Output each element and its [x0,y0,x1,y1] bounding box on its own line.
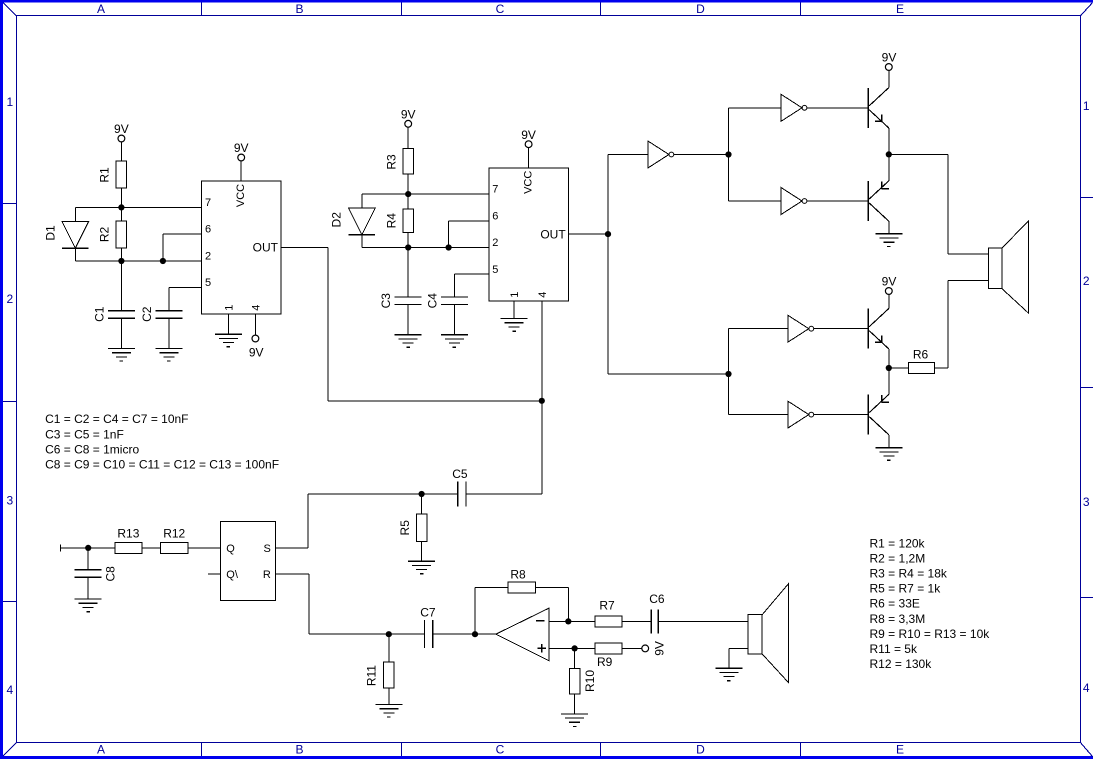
resistor R12 [160,527,188,554]
wire to inverter G2 [729,107,782,109]
svg-text:9V: 9V [401,107,416,121]
wire node to R6 [889,367,909,369]
capacitor C8 [75,548,118,599]
svg-text:C: C [496,2,505,16]
op-amp U4 [496,608,549,661]
transistor Q3 [868,309,888,349]
svg-text:D: D [696,2,705,16]
capacitor C3 [379,248,422,335]
svg-text:C1: C1 [92,306,106,322]
svg-text:B: B [295,2,303,16]
svg-text:R4: R4 [384,213,398,229]
power 9V VCC pin IC2 [521,128,536,168]
inverter G3 [781,188,807,215]
wire pin6 branch IC2 [449,221,489,248]
svg-text:C4: C4 [425,293,439,309]
transistor Q1 [868,88,888,128]
capacitor C5 [452,467,468,507]
svg-text:5: 5 [492,264,498,276]
svg-text:7: 7 [205,197,211,209]
ground under R10 [561,714,588,727]
inverter G4 [788,315,814,342]
wire trunk to bottom pair [608,373,729,375]
wire Q\ stub [208,573,221,575]
wire to inverter G5 [729,414,788,416]
resistor R10 [569,648,597,714]
wire to inverter G3 [729,200,782,202]
node pin2 net IC1 [75,258,201,264]
wire C6 to speaker [658,620,748,622]
svg-text:9V: 9V [114,122,129,136]
svg-text:1: 1 [509,292,521,298]
svg-text:C5: C5 [452,467,468,481]
wire pin6 branch IC1 [163,234,202,261]
svg-text:R6: R6 [913,347,929,361]
wire to inverter G4 [729,328,788,330]
power 9V supply above R3 [401,107,416,148]
wire top pair vertical [728,108,730,201]
wire minus input [549,620,568,622]
svg-text:6: 6 [205,224,211,236]
svg-text:R13: R13 [117,527,139,541]
svg-text:C8 = C9 = C10 = C11 = C12 = C1: C8 = C9 = C10 = C11 = C12 = C13 = 100nF [45,458,279,472]
wire Q3 collector to 9V [888,294,890,308]
svg-text:R: R [263,569,271,581]
svg-text:R10: R10 [583,670,597,692]
power 9V collector Q1 [882,51,897,71]
power 9V VCC pin IC1 [234,141,249,181]
wire vertical trunk [607,155,609,375]
ground under R5 [408,561,435,574]
svg-text:Q: Q [226,543,235,555]
wire trunk to inverter G1 [608,154,648,156]
svg-text:9V: 9V [882,275,897,289]
svg-text:D: D [696,742,705,756]
wire G1 output [674,154,729,156]
wire R6 to speaker LS1 [934,280,988,368]
ground under C2 [155,349,182,362]
resistor R8 feedback [475,567,568,634]
wire R12 to Q [188,547,221,549]
svg-text:1: 1 [1083,99,1090,113]
resistor R3 [384,148,413,174]
svg-text:C: C [496,742,505,756]
transistor Q4 [868,394,889,434]
wire OUT1 net [281,247,542,400]
svg-text:2: 2 [492,237,498,249]
resistor R7 [568,598,622,627]
node pin7 net IC2 [362,191,489,197]
svg-text:C8: C8 [103,566,117,582]
diode D2 [330,194,376,247]
node OUT2 junction [605,231,611,237]
svg-text:C6: C6 [649,592,665,606]
wire R7 to C6 [622,620,651,622]
svg-text:9V: 9V [882,51,897,65]
svg-text:R11: R11 [364,665,378,686]
svg-text:1: 1 [6,95,13,109]
ground under C3 [395,335,422,348]
svg-text:R11 = 5k: R11 = 5k [870,642,918,656]
svg-text:R6 = 33E: R6 = 33E [870,597,920,611]
wire top node to speaker LS1 [889,154,989,254]
svg-text:C2: C2 [140,306,154,322]
svg-text:9V: 9V [234,141,249,155]
power 9V supply above R1 [114,122,129,161]
resistor R11 [364,634,394,704]
node plus input [572,645,578,651]
resistor R4 [384,194,413,247]
resistor R2 [98,207,127,261]
wire OUT2 net [569,233,608,235]
resistor R13 [115,527,142,554]
svg-text:2: 2 [6,292,13,306]
node push-pull top [886,151,892,157]
inverter G2 [781,94,807,121]
svg-text:9V: 9V [521,128,536,142]
wire bottom pair vertical [728,329,730,415]
svg-text:3: 3 [1083,495,1090,509]
transistor Q2 [868,181,889,221]
capacitor C2 [140,306,183,348]
ground under C4 [441,335,468,348]
svg-text:C7: C7 [420,606,436,620]
resistor R9 [575,643,642,669]
wire Q2 lower to ground [888,221,890,234]
node R5 tap [419,491,425,497]
svg-text:1: 1 [223,305,235,311]
ground under C1 [108,349,135,362]
svg-text:A: A [97,2,105,16]
node OUT1/pin4 junction [539,398,545,404]
svg-text:4: 4 [537,292,549,298]
svg-text:9V: 9V [653,641,667,656]
svg-text:4: 4 [6,683,13,697]
svg-text:S: S [263,543,270,555]
svg-text:E: E [896,742,904,756]
svg-text:R8 = 3,3M: R8 = 3,3M [870,612,926,626]
note capacitor values [45,412,279,471]
node bottom pair split [725,371,731,377]
svg-text:VCC: VCC [235,184,247,207]
svg-text:4: 4 [250,305,262,311]
svg-text:E: E [896,2,904,16]
ground under Q2 [875,234,902,247]
node R11 tap [386,631,392,637]
svg-text:R3: R3 [384,154,398,170]
node minus input [565,618,571,624]
wire Q4 upper to node [888,368,890,394]
speaker LS2 [748,584,789,683]
wire Q4 lower to ground [888,435,890,448]
svg-text:2: 2 [1083,274,1090,288]
svg-text:R5 = R7 = 1k: R5 = R7 = 1k [870,582,942,596]
wire pin4 IC2 down to junction [541,301,543,401]
wire C5 right segment [466,493,542,495]
op-amp U1 555 timer IC1 box [202,181,282,314]
svg-text:B: B [295,742,303,756]
svg-text:R12 = 130k: R12 = 130k [870,657,933,671]
power 9V collector Q3 [882,275,897,295]
ground under speaker LS2 [715,668,742,681]
wire R pin to opamp row [276,574,389,634]
svg-text:7: 7 [492,184,498,196]
node R8 feedback tap [472,631,478,637]
inverter G1 [648,141,674,168]
svg-text:D2: D2 [330,212,344,228]
node top pair split [725,151,731,157]
ground under Q4 [875,448,902,461]
svg-text:R2: R2 [98,227,112,243]
wire R3 to node [407,174,409,194]
wire C5 left segment to S [276,494,458,548]
svg-text:OUT: OUT [253,241,279,255]
wire pin5 branch IC2 [454,274,488,297]
power 9V pin4 IC1 [249,314,264,359]
svg-text:R2 = 1,2M: R2 = 1,2M [870,551,926,565]
svg-text:D1: D1 [44,225,58,241]
wire Q2 upper to node [888,154,890,180]
capacitor C6 [649,592,665,633]
ground pin1 IC1 [215,314,242,347]
svg-text:R7: R7 [599,598,615,612]
node push-pull bottom [886,365,892,371]
wire Q1 collector to 9V [888,70,890,87]
ground under C8 [75,599,102,612]
svg-text:R3 = R4 = 18k: R3 = R4 = 18k [870,567,948,581]
resistor R6 [908,347,934,373]
svg-text:R1 = 120k: R1 = 120k [870,536,926,550]
wire G5 to Q4 base [814,414,868,416]
wire G4 to Q3 base [814,328,868,330]
svg-text:R1: R1 [98,167,112,183]
wire R1 to node [120,188,122,207]
svg-text:2: 2 [205,251,211,263]
wire pin5 branch IC1 [169,288,202,311]
svg-text:C3 = C5 = 1nF: C3 = C5 = 1nF [45,427,124,441]
node pin2 net IC2 [362,244,489,250]
svg-text:R9 = R10 = R13 = 10k: R9 = R10 = R13 = 10k [870,627,991,641]
svg-text:OUT: OUT [540,227,566,241]
svg-text:C6 = C8 = 1micro: C6 = C8 = 1micro [45,442,139,456]
inverter G5 [788,401,814,428]
capacitor C1 [92,261,134,349]
speaker LS1 [989,221,1029,314]
ground pin1 IC2 [501,301,528,331]
wire G2 to Q1 base [807,107,868,109]
svg-text:R5: R5 [398,520,412,536]
flip-flop U3 box [221,521,276,600]
svg-text:4: 4 [1083,681,1090,695]
wire junction down to C5 row [541,401,543,494]
svg-text:6: 6 [492,210,498,222]
power 9V at R9 [642,641,667,656]
svg-text:5: 5 [205,277,211,289]
svg-text:3: 3 [6,494,13,508]
capacitor C7 [389,606,436,649]
svg-text:9V: 9V [249,346,264,360]
svg-text:C3: C3 [379,293,393,309]
wire plus input [549,647,575,649]
node input stub [61,544,116,551]
ground under R11 [375,705,402,718]
svg-text:R9: R9 [597,655,613,669]
diode D1 [44,207,89,261]
svg-text:C1 = C2 = C4 = C7 = 10nF: C1 = C2 = C4 = C7 = 10nF [45,412,188,426]
svg-text:Q\: Q\ [226,569,239,581]
node pin7 net IC1 [75,204,201,210]
svg-text:VCC: VCC [523,171,535,194]
wire speaker LS2 to ground [729,648,748,668]
wire G3 to Q2 base [807,200,868,202]
resistor R5 [398,494,427,561]
capacitor C4 [425,293,468,335]
svg-text:A: A [97,742,105,756]
wire R13-R12 [142,547,161,549]
wire Q3 emitter to node [888,349,890,368]
wire C7 to opamp output [433,633,496,635]
op-amp U2 555 timer IC2 box [489,168,569,301]
svg-text:R12: R12 [163,527,185,541]
node C8 tap [85,545,91,551]
svg-text:R8: R8 [510,567,526,581]
resistor R1 [98,161,127,188]
wire Q1 emitter to node [888,128,890,154]
note resistor values [870,536,991,671]
